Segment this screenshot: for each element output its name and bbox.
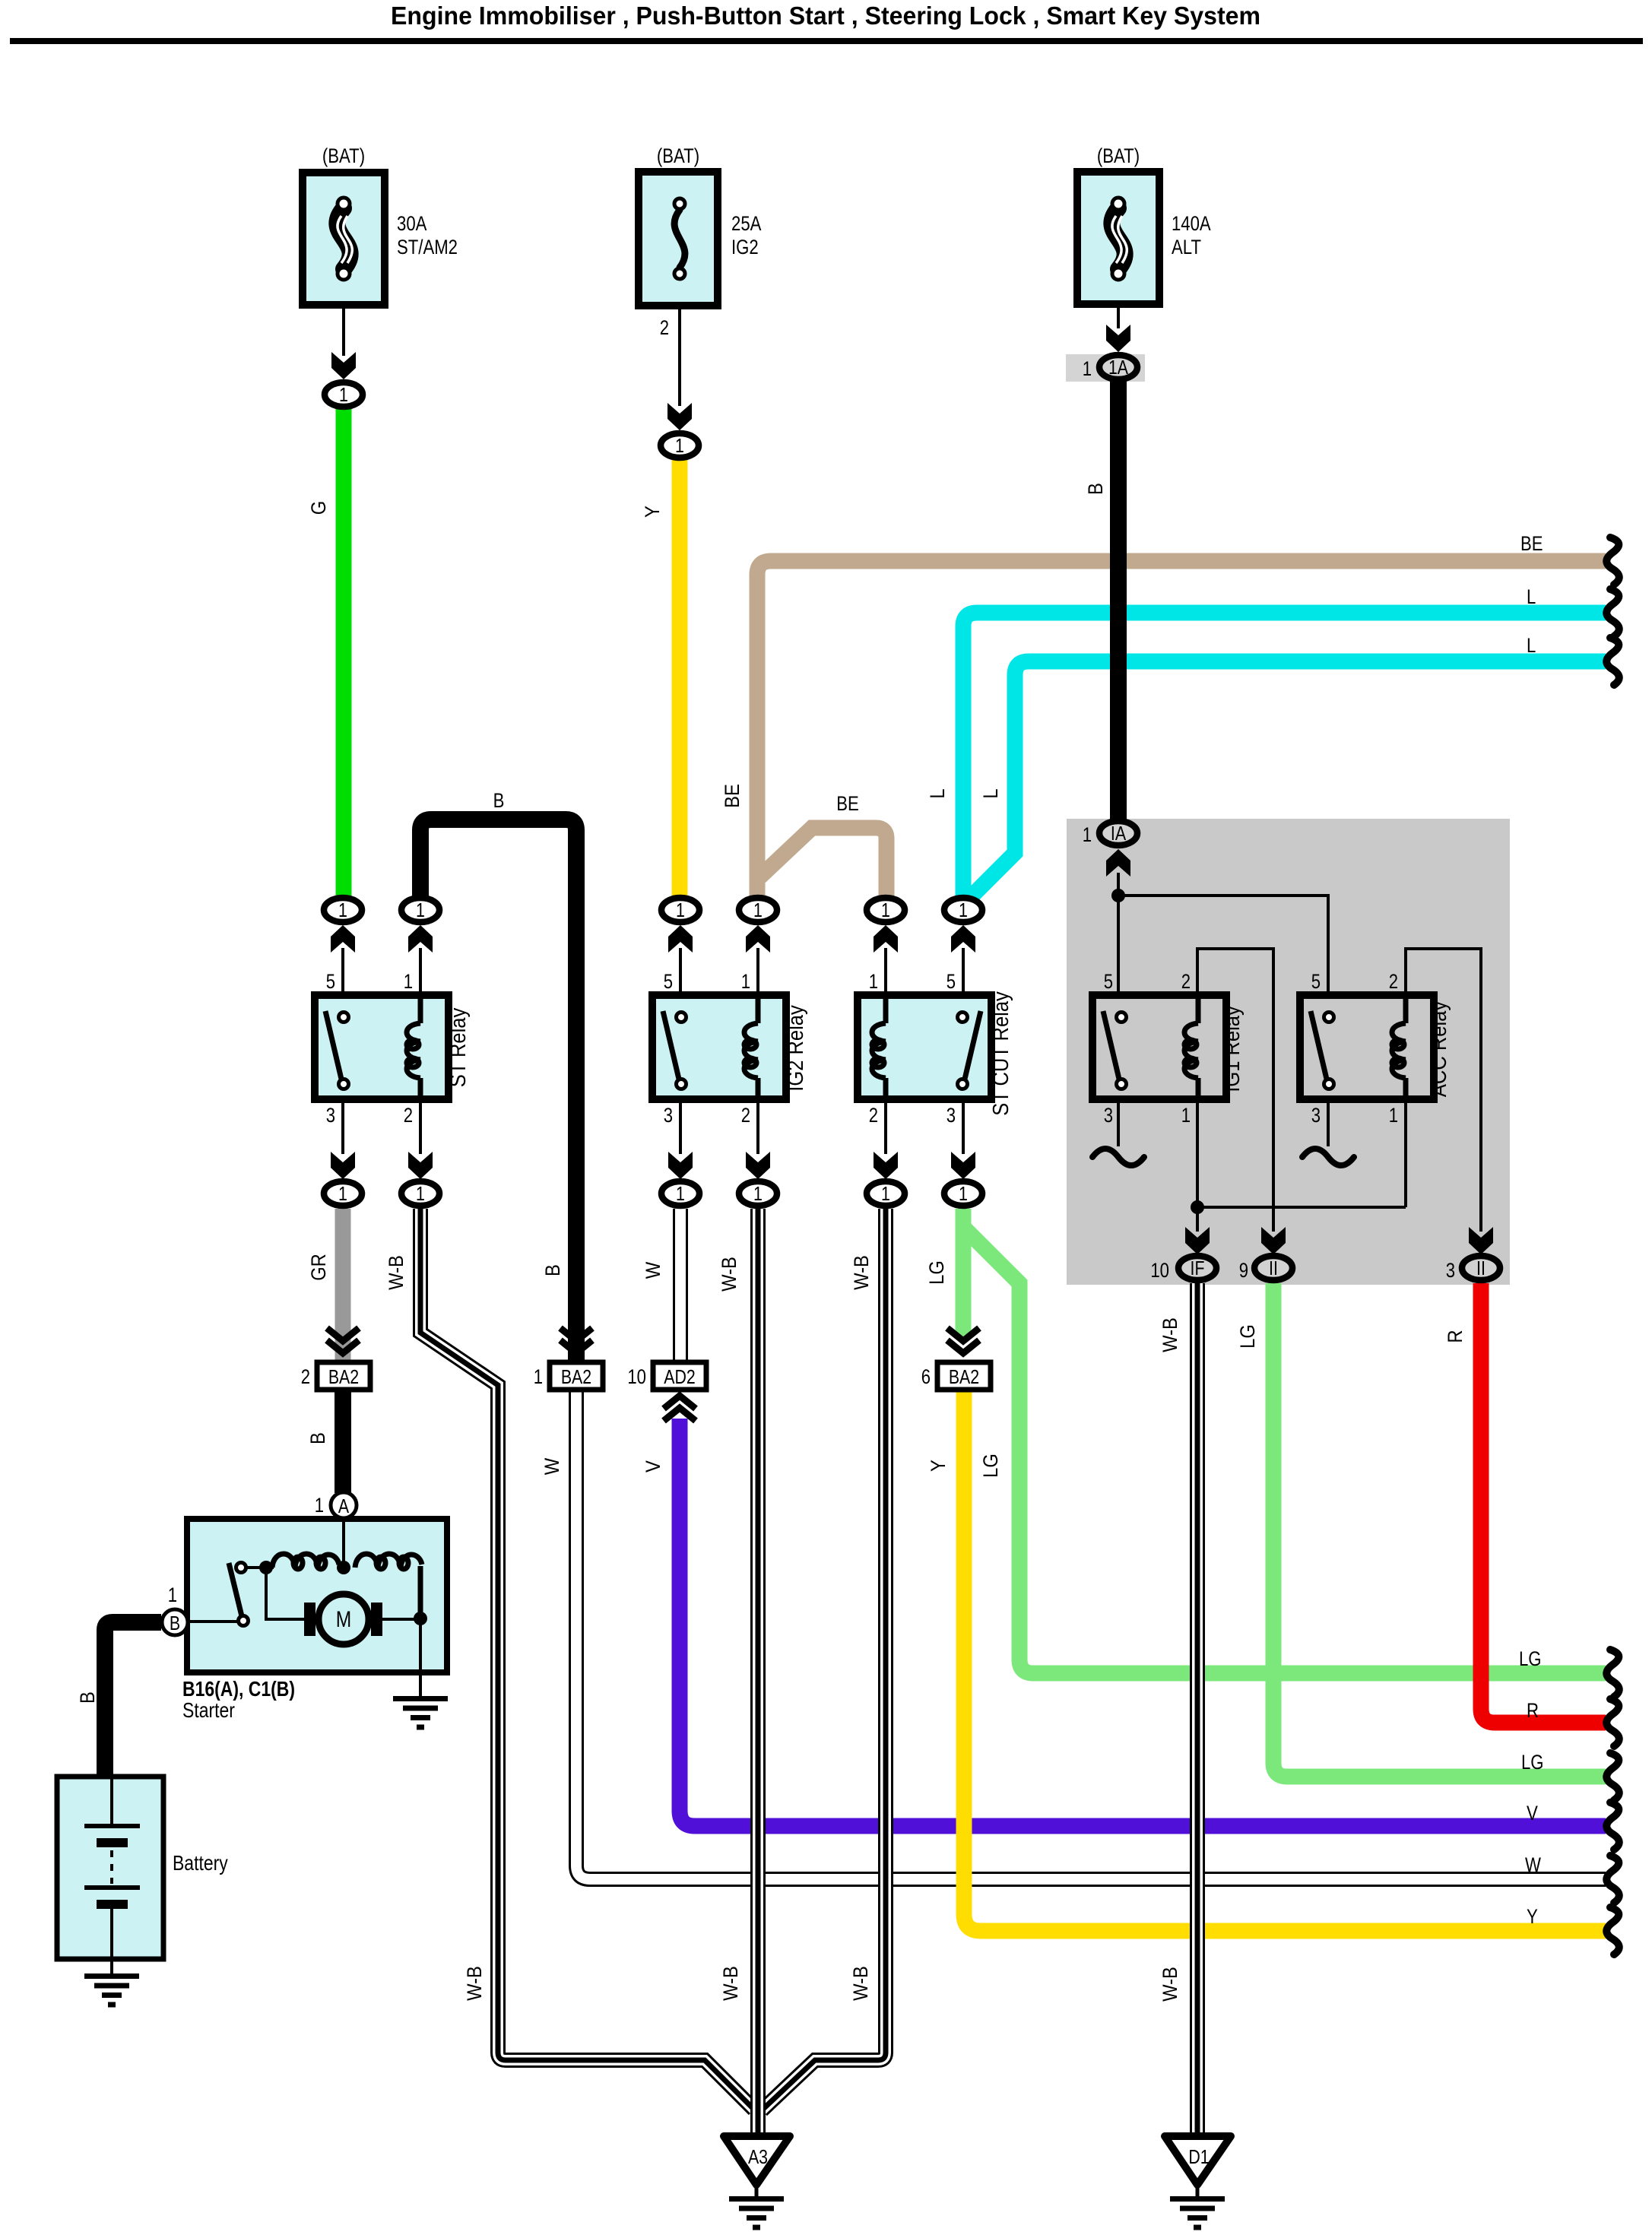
- wire W-B from relay block IF to ground D1: [1190, 1283, 1205, 2140]
- svg-text:1: 1: [676, 1182, 685, 1205]
- svg-text:V: V: [1527, 1802, 1538, 1824]
- svg-text:W: W: [541, 1457, 563, 1475]
- coil IG2 Relay: [744, 995, 758, 1099]
- arrow fuse ALT to node 1A: [1106, 325, 1130, 352]
- wire relay pin stub: [962, 948, 965, 997]
- svg-text:W-B: W-B: [385, 1255, 407, 1290]
- svg-text:W-B: W-B: [463, 1966, 486, 2001]
- svg-text:ST Relay: ST Relay: [446, 1007, 471, 1087]
- arrow into node IA: [1106, 849, 1130, 877]
- svg-text:5: 5: [326, 970, 335, 993]
- svg-text:BA2: BA2: [949, 1365, 979, 1388]
- svg-text:Y: Y: [641, 506, 664, 518]
- svg-text:II: II: [1476, 1257, 1486, 1279]
- svg-text:B: B: [170, 1612, 180, 1634]
- svg-text:BE: BE: [836, 792, 859, 815]
- svg-text:L: L: [1527, 585, 1536, 608]
- arrow fuse ST/AM2 to node: [331, 352, 356, 379]
- svg-text:Starter: Starter: [182, 1698, 235, 1722]
- svg-text:A3: A3: [748, 2145, 768, 2168]
- junction dot IA: [1111, 889, 1125, 902]
- connector 1 BA2: [534, 1362, 603, 1390]
- wire W-B from IG2 relay pin2 to ground A3: [750, 1209, 766, 2140]
- wire fuse ALT output: [1117, 304, 1120, 328]
- junction dot starter coil mid: [337, 1561, 350, 1574]
- wire Y (yellow) from connector BA2 to right edge: [964, 1390, 1606, 1931]
- continuation squiggle LG wire: [1606, 1650, 1619, 1697]
- starter field coils: [272, 1554, 422, 1615]
- svg-text:1: 1: [881, 1182, 890, 1205]
- node 1 above relay: [661, 898, 699, 922]
- wire IA junction to ACC pin5: [1115, 894, 1328, 897]
- arrow into relay node: [951, 925, 975, 953]
- junction dot coil common: [1191, 1200, 1204, 1214]
- wire relay pin stub: [679, 1099, 682, 1154]
- svg-text:II: II: [1269, 1257, 1278, 1279]
- wire relay pin stub: [756, 948, 759, 997]
- continuation squiggle Y wire: [1606, 1907, 1619, 1954]
- svg-text:ST CUT Relay: ST CUT Relay: [989, 991, 1013, 1116]
- arrow to node IF: [1185, 1227, 1210, 1254]
- ground D1 bars: [1170, 2196, 1225, 2230]
- svg-text:W: W: [1525, 1853, 1541, 1876]
- coil ST Relay: [407, 995, 420, 1099]
- wire B (black) ST relay pin1 loop to connector BA2: [420, 819, 576, 1361]
- node II relay block: [1254, 1256, 1292, 1280]
- relay box IG2 Relay: [652, 995, 786, 1099]
- wire relay pin stub: [884, 948, 887, 997]
- svg-text:30A: 30A: [397, 212, 426, 235]
- svg-text:1: 1: [753, 899, 763, 921]
- relay box IG1 Relay: [1092, 995, 1226, 1099]
- svg-text:W-B: W-B: [719, 1966, 742, 2001]
- svg-text:5: 5: [946, 970, 956, 993]
- svg-text:2: 2: [660, 316, 669, 339]
- node II relay block right: [1462, 1256, 1500, 1280]
- starter motor M: [304, 1594, 382, 1644]
- svg-text:6: 6: [921, 1365, 931, 1388]
- double chevron V wire into AD2: [664, 1396, 696, 1421]
- title rule: [10, 38, 1643, 44]
- node 1 below relay: [944, 1181, 982, 1206]
- wire relay pin stub: [419, 1099, 422, 1154]
- svg-text:2: 2: [741, 1104, 750, 1127]
- wire IG1 coil pin2 to II: [1197, 949, 1273, 1232]
- continuation squiggle W wire: [1606, 1856, 1619, 1903]
- svg-text:B: B: [76, 1691, 99, 1704]
- wire B (black) connector BA2 to starter node A: [335, 1390, 351, 1493]
- node 1 above relay: [739, 898, 777, 922]
- svg-text:BA2: BA2: [561, 1365, 591, 1388]
- wire LG from relay block II to right edge: [1273, 1283, 1606, 1777]
- svg-text:1: 1: [416, 899, 425, 921]
- double chevron LG wire: [947, 1328, 979, 1353]
- svg-text:R: R: [1527, 1699, 1539, 1722]
- svg-text:W-B: W-B: [1159, 1317, 1181, 1352]
- wire L (cyan) from right edge to ST CUT relay pin5: [963, 613, 1606, 901]
- svg-text:L: L: [926, 788, 949, 798]
- svg-text:R: R: [1444, 1330, 1467, 1343]
- svg-text:1: 1: [1083, 357, 1092, 380]
- node 1 below relay: [867, 1181, 905, 1206]
- svg-text:BA2: BA2: [328, 1365, 359, 1388]
- svg-text:IF: IF: [1191, 1257, 1205, 1279]
- node IA relay block: [1099, 821, 1137, 845]
- svg-text:LG: LG: [1521, 1751, 1544, 1774]
- svg-text:2: 2: [1181, 970, 1191, 993]
- svg-text:1: 1: [315, 1494, 324, 1517]
- svg-text:IA: IA: [1111, 822, 1127, 845]
- arrow fuse IG2 to node: [667, 403, 692, 430]
- svg-text:L: L: [979, 788, 1002, 798]
- node 1 below relay: [739, 1181, 777, 1206]
- node 1 below relay: [661, 1181, 699, 1206]
- wire relay pin stub: [756, 1099, 759, 1154]
- svg-text:5: 5: [1311, 970, 1321, 993]
- svg-text:W-B: W-B: [850, 1255, 873, 1290]
- svg-text:D1: D1: [1188, 2145, 1209, 2168]
- svg-text:10: 10: [1150, 1259, 1169, 1282]
- wire relay pin stub: [341, 948, 344, 997]
- relay box ACC Relay: [1300, 995, 1434, 1099]
- continuation wave IG1 pin3: [1092, 1149, 1144, 1165]
- continuation wave ACC pin3: [1302, 1149, 1354, 1165]
- svg-text:1: 1: [1083, 823, 1092, 846]
- wire relay pin stub: [884, 1099, 887, 1154]
- svg-text:5: 5: [664, 970, 673, 993]
- ground starter: [393, 1696, 448, 1730]
- node 1 above relay: [324, 898, 362, 922]
- wire ACC coil pin2 to II: [1406, 949, 1481, 1232]
- svg-text:1: 1: [338, 899, 347, 921]
- relay box ST Relay: [315, 995, 449, 1099]
- starter switch: [229, 1563, 249, 1626]
- ground A3 bars: [729, 2196, 784, 2230]
- switch ACC Relay: [1311, 1011, 1334, 1089]
- wire B (black) fuse ALT to node IA: [1110, 379, 1127, 821]
- arrow out of relay: [746, 1152, 770, 1179]
- svg-text:(BAT): (BAT): [657, 144, 699, 167]
- svg-text:ACC Relay: ACC Relay: [1427, 1000, 1451, 1097]
- svg-text:10: 10: [627, 1365, 646, 1388]
- wire BE (tan) from right edge to IG2 relay pin1: [757, 561, 1606, 901]
- svg-text:3: 3: [664, 1104, 673, 1127]
- svg-text:ST/AM2: ST/AM2: [397, 236, 458, 258]
- coil ST CUT Relay: [872, 995, 886, 1099]
- node 1 below relay: [401, 1181, 439, 1206]
- svg-text:1: 1: [869, 970, 878, 993]
- svg-text:IG2 Relay: IG2 Relay: [784, 1005, 808, 1092]
- svg-text:A: A: [338, 1495, 350, 1517]
- wire relay pin stub: [419, 948, 422, 997]
- battery cells: [84, 1777, 140, 1973]
- double chevron B wire: [560, 1328, 592, 1353]
- svg-text:B: B: [541, 1264, 564, 1276]
- svg-text:L: L: [1527, 634, 1536, 657]
- wire GR (gray) ST relay pin3 to connector BA2: [335, 1209, 351, 1361]
- svg-text:1: 1: [168, 1584, 177, 1606]
- node A starter: [331, 1492, 357, 1518]
- node 1 below relay: [324, 1181, 362, 1206]
- svg-text:LG: LG: [925, 1260, 948, 1285]
- junction dot starter motor right: [414, 1612, 427, 1625]
- svg-text:3: 3: [1104, 1104, 1113, 1127]
- continuation squiggle L wire: [1606, 638, 1619, 685]
- wire BE branch to ST CUT relay pin1: [759, 828, 886, 901]
- coil IG1 Relay: [1184, 995, 1198, 1099]
- svg-text:LG: LG: [1236, 1324, 1259, 1349]
- svg-text:3: 3: [946, 1104, 956, 1127]
- continuation squiggle LG wire: [1606, 1753, 1619, 1800]
- svg-text:1: 1: [753, 1182, 763, 1205]
- svg-text:1: 1: [1181, 1104, 1191, 1127]
- wire IG1 pin3 stub: [1117, 1099, 1120, 1146]
- arrow out of relay: [408, 1152, 433, 1179]
- gray band node 1A: [1066, 354, 1145, 382]
- svg-text:140A: 140A: [1172, 212, 1211, 235]
- node 1A below fuse ALT: [1099, 355, 1137, 379]
- wire Y (yellow) fuse IG2 to IG2 relay pin5: [672, 457, 688, 899]
- svg-text:LG: LG: [1519, 1647, 1542, 1670]
- continuation squiggle L wire: [1606, 589, 1619, 636]
- svg-text:W-B: W-B: [1159, 1967, 1181, 2002]
- svg-text:W-B: W-B: [718, 1257, 740, 1292]
- svg-text:Battery: Battery: [173, 1851, 228, 1875]
- connector 2 BA2: [301, 1362, 370, 1390]
- svg-text:BE: BE: [721, 784, 744, 808]
- svg-text:1: 1: [675, 434, 684, 457]
- arrow into relay node: [874, 925, 898, 953]
- switch ST CUT Relay: [958, 1011, 981, 1089]
- svg-text:1: 1: [1389, 1104, 1398, 1127]
- switch IG2 Relay: [663, 1011, 686, 1089]
- continuation squiggle R wire: [1606, 1699, 1619, 1746]
- svg-text:M: M: [336, 1607, 352, 1632]
- node 1 above relay: [867, 898, 905, 922]
- svg-text:1: 1: [404, 970, 413, 993]
- svg-text:1: 1: [416, 1182, 425, 1205]
- wire fuse IG2 output pin2: [678, 306, 681, 406]
- connector 10 AD2: [627, 1362, 706, 1390]
- wire R (red) from relay block II to right edge: [1481, 1283, 1606, 1723]
- svg-text:1: 1: [959, 1182, 968, 1205]
- fuse 30A ST/AM2: [303, 173, 385, 305]
- battery box: [57, 1777, 163, 1959]
- wire relay pin stub: [679, 948, 682, 997]
- gray relay-block panel: [1067, 819, 1510, 1285]
- arrow out of relay: [874, 1152, 898, 1179]
- svg-text:Y: Y: [1527, 1905, 1538, 1928]
- wire V (violet) from connector AD2 to right edge: [680, 1419, 1606, 1826]
- svg-text:W: W: [642, 1261, 664, 1279]
- svg-text:1A: 1A: [1108, 356, 1129, 379]
- fusible link element ST/AM2: [337, 198, 352, 280]
- wire node B to switch: [189, 1620, 237, 1623]
- wire relay pin stub: [341, 1099, 344, 1154]
- svg-text:1: 1: [959, 899, 968, 921]
- svg-text:ALT: ALT: [1172, 236, 1201, 258]
- junction dot starter coil left: [259, 1561, 273, 1574]
- arrow into relay node: [746, 925, 770, 953]
- wire W from connector BA2 to right edge: [576, 1390, 1606, 1879]
- arrow out of relay: [951, 1152, 975, 1179]
- wire B (black) starter node B to battery: [105, 1622, 161, 1779]
- node 1 above relay: [401, 898, 439, 922]
- wire motor to right junction: [381, 1618, 420, 1621]
- node B starter: [162, 1609, 188, 1635]
- wire LG branch to right edge: [965, 1228, 1606, 1673]
- node 1 below fuse IG2: [661, 433, 699, 458]
- wire G (green) fuse ST/AM2 to ST relay pin5: [336, 406, 352, 899]
- svg-text:3: 3: [1446, 1259, 1455, 1282]
- wire fuse ST/AM2 output: [342, 305, 345, 356]
- wire coil common: [1197, 1206, 1406, 1209]
- fuse element IG2: [674, 198, 685, 279]
- svg-text:IG2: IG2: [731, 236, 759, 258]
- wire ACC pin5 drop: [1327, 894, 1330, 997]
- switch IG1 Relay: [1103, 1011, 1127, 1089]
- svg-text:1: 1: [534, 1365, 543, 1388]
- arrow out of relay: [331, 1152, 355, 1179]
- svg-text:(BAT): (BAT): [322, 144, 365, 167]
- svg-text:3: 3: [326, 1104, 335, 1127]
- svg-text:LG: LG: [979, 1454, 1002, 1478]
- fusible link element ALT: [1111, 198, 1127, 280]
- wire LG from ST CUT relay pin3: [956, 1209, 972, 1336]
- wire IA to IG1 pin5: [1117, 873, 1120, 997]
- svg-text:25A: 25A: [731, 212, 761, 235]
- coil ACC Relay: [1392, 995, 1406, 1099]
- starter box B16(A), C1(B): [187, 1519, 447, 1672]
- arrow out of relay: [668, 1152, 693, 1179]
- switch ST Relay: [325, 1011, 349, 1089]
- svg-text:1: 1: [676, 899, 685, 921]
- svg-text:1: 1: [881, 899, 890, 921]
- svg-text:Y: Y: [927, 1460, 950, 1472]
- wire W-B from ST CUT relay pin2 to ground A3: [762, 1209, 886, 2110]
- relay box ST CUT Relay: [858, 995, 991, 1099]
- wire ACC coil pin1 drop: [1404, 1099, 1407, 1207]
- double chevron GR wire: [327, 1328, 359, 1353]
- wire coil junction to motor: [266, 1568, 304, 1619]
- svg-text:9: 9: [1239, 1259, 1248, 1282]
- continuation squiggle V wire: [1606, 1802, 1619, 1850]
- ground triangle D1: [1165, 2136, 1231, 2199]
- connector 6 BA2: [921, 1362, 991, 1390]
- svg-text:1: 1: [338, 1182, 347, 1205]
- wire L (cyan) second from right edge: [972, 661, 1606, 896]
- svg-text:GR: GR: [307, 1254, 330, 1281]
- svg-text:2: 2: [301, 1365, 310, 1388]
- wire ACC pin3 stub: [1327, 1099, 1330, 1146]
- svg-text:B: B: [1084, 483, 1107, 495]
- svg-text:(BAT): (BAT): [1097, 144, 1140, 167]
- svg-text:BE: BE: [1520, 532, 1543, 555]
- svg-text:Engine Immobiliser , Push-Butt: Engine Immobiliser , Push-Button Start ,…: [391, 2, 1260, 30]
- node IF relay block: [1178, 1256, 1216, 1280]
- fuse 25A IG2: [639, 172, 718, 306]
- svg-text:AD2: AD2: [664, 1365, 696, 1388]
- continuation squiggle BE wire: [1606, 537, 1619, 585]
- svg-text:3: 3: [1311, 1104, 1321, 1127]
- wire starter node A drop: [342, 1520, 345, 1568]
- wire starter to ground: [419, 1618, 422, 1696]
- svg-text:V: V: [642, 1460, 664, 1473]
- wire IG1 coil pin1 to IF: [1196, 1099, 1199, 1232]
- arrow to node II: [1469, 1227, 1493, 1254]
- svg-text:B16(A), C1(B): B16(A), C1(B): [182, 1677, 295, 1701]
- arrow into relay node: [408, 925, 433, 953]
- arrow into relay node: [331, 925, 355, 953]
- svg-text:G: G: [307, 501, 330, 515]
- wire starter field coil row: [246, 1566, 274, 1569]
- node 1 above relay: [944, 898, 982, 922]
- svg-text:5: 5: [1104, 970, 1113, 993]
- wire W-B from ST relay pin2 to ground A3: [420, 1209, 754, 2110]
- wire W from IG2 relay pin3 to connector AD2: [673, 1209, 688, 1362]
- svg-text:B: B: [306, 1432, 329, 1444]
- node 1 below fuse ST/AM2: [325, 382, 363, 407]
- svg-text:2: 2: [1389, 970, 1398, 993]
- svg-text:2: 2: [869, 1104, 878, 1127]
- svg-text:IG1 Relay: IG1 Relay: [1220, 1006, 1245, 1092]
- ground triangle A3: [724, 2136, 790, 2199]
- ground battery: [84, 1973, 139, 2008]
- svg-text:W-B: W-B: [849, 1966, 872, 2001]
- arrow to node II: [1261, 1227, 1286, 1254]
- arrow into relay node: [668, 925, 693, 953]
- svg-text:1: 1: [741, 970, 750, 993]
- svg-text:2: 2: [404, 1104, 413, 1127]
- fuse 140A ALT: [1077, 172, 1159, 304]
- svg-text:B: B: [493, 789, 505, 812]
- svg-text:1: 1: [339, 383, 348, 406]
- wire relay pin stub: [962, 1099, 965, 1154]
